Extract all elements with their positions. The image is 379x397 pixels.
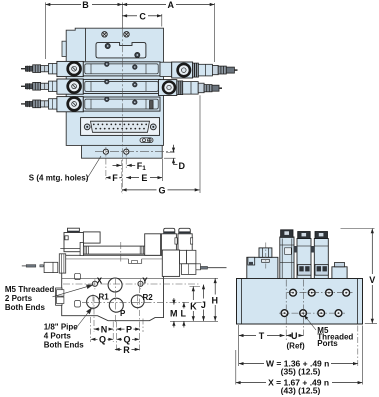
svg-text:P: P <box>120 309 126 318</box>
extension lines bottom <box>105 147 107 181</box>
main block (end view) <box>237 279 363 325</box>
mtg hole S top-right <box>124 32 129 37</box>
left pilot fitting <box>44 262 58 272</box>
svg-text:Q: Q <box>99 335 106 345</box>
dimension F1 <box>113 164 122 166</box>
svg-text:D: D <box>179 161 186 171</box>
port R2 <box>131 295 144 308</box>
H <box>214 278 216 294</box>
svg-text:(43) (12.5): (43) (12.5) <box>281 386 321 396</box>
svg-text:2 Ports: 2 Ports <box>5 294 33 303</box>
bottom dimensions <box>91 287 143 353</box>
centerlines <box>63 242 206 322</box>
bottom flange <box>82 145 163 158</box>
valve row 3 <box>21 97 160 112</box>
dimension G <box>122 189 157 191</box>
svg-text:R1: R1 <box>99 293 110 302</box>
dimension A <box>122 4 166 6</box>
T / U dimensions <box>238 325 240 366</box>
svg-text:K: K <box>190 301 197 311</box>
svg-text:M5 Threaded: M5 Threaded <box>5 285 54 294</box>
port R1 <box>87 296 100 309</box>
V dimension <box>341 228 375 230</box>
svg-text:S (4 mtg. holes): S (4 mtg. holes) <box>29 174 89 183</box>
manifold body (top view) <box>66 28 163 145</box>
svg-text:R2: R2 <box>143 293 154 302</box>
svg-text:F1: F1 <box>137 161 147 172</box>
right end block <box>332 267 347 279</box>
center line vertical <box>121 3 123 29</box>
block top edge <box>62 277 164 279</box>
svg-text:J: J <box>201 300 206 310</box>
solenoid 3 <box>314 239 328 279</box>
svg-text:Y: Y <box>142 276 148 285</box>
valve row 1 (top view) <box>21 61 160 76</box>
flange holes <box>103 149 108 154</box>
M <box>173 298 175 305</box>
manifold block outline (front) <box>62 255 164 320</box>
svg-text:F: F <box>112 173 118 183</box>
port Y <box>138 281 143 286</box>
svg-text:H: H <box>212 295 219 305</box>
svg-text:L: L <box>181 308 187 318</box>
svg-text:N: N <box>101 324 108 334</box>
svg-text:X: X <box>97 276 103 285</box>
left end plate <box>59 254 65 273</box>
svg-text:(35) (12.5): (35) (12.5) <box>281 367 321 377</box>
right-side dimensions <box>162 278 218 327</box>
right pilot block <box>162 250 179 276</box>
J <box>203 285 205 299</box>
left valve cap <box>68 228 80 232</box>
upper port row <box>290 289 350 296</box>
K <box>192 286 194 300</box>
svg-text:E: E <box>141 173 147 183</box>
lower port row <box>281 310 342 317</box>
svg-text:Both Ends: Both Ends <box>5 303 46 312</box>
right bracket stack <box>180 250 187 263</box>
svg-text:R: R <box>123 345 130 355</box>
port P <box>109 298 123 312</box>
svg-text:G: G <box>158 185 165 195</box>
svg-text:V: V <box>369 275 375 285</box>
solenoid 1 <box>280 237 294 279</box>
right valve block <box>145 234 161 256</box>
dimension D <box>166 151 175 153</box>
row3 right end detail <box>150 101 154 109</box>
port A (top center) <box>108 278 122 292</box>
svg-text:1/8" Pipe: 1/8" Pipe <box>44 323 79 332</box>
nameplate <box>96 43 146 58</box>
center bar <box>83 246 146 254</box>
X dimension <box>236 382 266 384</box>
port X <box>92 281 97 286</box>
svg-text:Q: Q <box>123 335 130 345</box>
svg-text:P: P <box>126 324 132 334</box>
L <box>183 302 185 308</box>
mtg hole S top-left <box>102 32 107 37</box>
left annotations <box>5 285 84 349</box>
solenoid 2 <box>297 239 311 279</box>
centerlines <box>279 280 353 342</box>
svg-text:Both Ends: Both Ends <box>44 341 85 350</box>
flange hole centerline <box>95 151 175 153</box>
svg-text:A: A <box>168 0 175 10</box>
D-sub connector plate <box>81 118 160 136</box>
svg-text:M: M <box>170 308 178 318</box>
left valve body <box>64 233 83 252</box>
slots on body <box>75 273 81 279</box>
svg-text:4 Ports: 4 Ports <box>44 332 72 341</box>
small oval button <box>140 138 153 143</box>
left valve right block <box>83 232 100 243</box>
svg-text:C: C <box>139 11 146 21</box>
dimension C <box>122 15 137 17</box>
right solenoid A <box>161 234 176 256</box>
dimension B <box>46 4 82 6</box>
W dimension <box>357 326 359 367</box>
valve row 2 <box>21 79 160 94</box>
svg-text:T: T <box>259 331 265 341</box>
svg-text:(Ref): (Ref) <box>287 341 306 350</box>
base plate line <box>62 258 129 260</box>
row1 right extension <box>160 62 238 78</box>
left M5 boss <box>56 288 62 305</box>
svg-text:U: U <box>291 331 298 341</box>
regulator assembly <box>247 257 278 278</box>
dimension E <box>126 177 139 179</box>
M5 threaded ports leader <box>305 316 316 330</box>
row2 right extension <box>159 80 223 96</box>
right solenoid B <box>178 234 192 256</box>
dimension F <box>106 177 122 179</box>
svg-text:B: B <box>82 0 89 10</box>
svg-text:Ports: Ports <box>317 339 338 348</box>
port labels <box>97 276 153 318</box>
